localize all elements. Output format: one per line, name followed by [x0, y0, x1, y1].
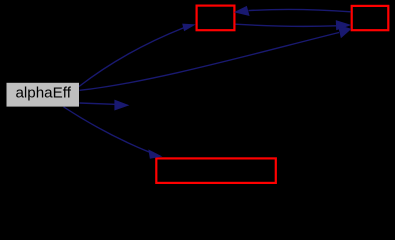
node N1 (red box top-middle)	[197, 6, 235, 31]
edge alphaEff->N3	[64, 107, 163, 159]
edge N1->N2	[236, 20, 352, 30]
edge alphaEff->hidden	[80, 100, 130, 111]
node alphaEff	[7, 83, 80, 107]
edge alphaEff->N1	[79, 24, 196, 87]
svg-text:alphaEff: alphaEff	[15, 85, 71, 102]
node N3 (red box bottom)	[156, 158, 275, 183]
node N2 (red box top-right)	[352, 6, 389, 30]
edge alphaEff->N2	[80, 25, 352, 91]
edge N2->N1	[234, 6, 351, 16]
